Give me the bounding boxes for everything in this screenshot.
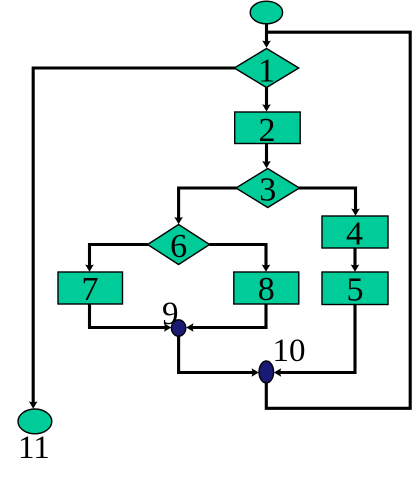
- wire: decision 1 exit left, down to terminal 11: [29, 68, 236, 409]
- svg-text:1: 1: [258, 53, 275, 90]
- svg-text:3: 3: [259, 172, 276, 209]
- svg-text:8: 8: [258, 271, 275, 308]
- label 9: [162, 296, 179, 332]
- process 5 rectangle: [322, 272, 388, 309]
- terminal 11 ellipse: [18, 409, 52, 434]
- node 9 junction ellipse: [171, 320, 185, 336]
- wire: node 9 to node 10: [179, 335, 259, 377]
- label 10: [273, 333, 306, 369]
- wire: decision 6 left branch to process 7: [85, 245, 148, 272]
- decision 6 diamond: [148, 225, 210, 266]
- svg-text:6: 6: [170, 228, 187, 265]
- wire: decision 6 right branch to process 8: [210, 245, 271, 272]
- label 11: [18, 430, 50, 466]
- process 8 rectangle: [234, 271, 299, 308]
- decision 3 diamond: [236, 169, 300, 209]
- svg-text:2: 2: [259, 112, 276, 149]
- wire: decision 1 to process 2: [262, 86, 271, 112]
- start terminal ellipse: [250, 1, 282, 24]
- wire: process 8 to node 9: [186, 304, 266, 332]
- svg-text:4: 4: [346, 216, 363, 253]
- wire: start ellipse to decision 1: [262, 22, 271, 48]
- wire: process 7 to node 9: [90, 304, 172, 332]
- svg-text:7: 7: [82, 271, 99, 308]
- process 4 rectangle: [322, 216, 388, 253]
- wire: decision 3 left branch to decision 6: [174, 188, 237, 224]
- svg-text:11: 11: [18, 430, 50, 466]
- wire: feedback loop from node 10 down, right, up and left to merge above decision 1: [266, 32, 410, 408]
- decision 1 diamond: [234, 49, 298, 90]
- wire: process 5 to node 10: [274, 304, 355, 377]
- process 2 rectangle: [235, 112, 301, 149]
- wire: process 4 to process 5: [351, 248, 360, 272]
- svg-text:5: 5: [347, 272, 364, 309]
- svg-text:9: 9: [162, 296, 179, 332]
- svg-text:10: 10: [273, 333, 306, 369]
- wire: decision 3 right branch to process 4: [299, 188, 360, 216]
- node 10 junction ellipse: [259, 361, 274, 383]
- wire: process 2 to decision 3: [262, 143, 271, 168]
- process 7 rectangle: [58, 271, 123, 308]
